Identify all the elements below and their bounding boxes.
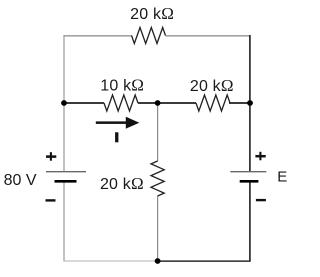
resistor R1 20 kOhm (top) [132, 28, 166, 44]
minus sign left battery [46, 199, 56, 201]
node C (right middle junction) [247, 100, 253, 106]
wire middle left lead [64, 102, 104, 104]
wire right vertical lower [249, 181, 251, 261]
svg-text:20 kΩ: 20 kΩ [100, 174, 144, 193]
battery E long plate [230, 171, 266, 173]
wire bottom right half [158, 260, 251, 262]
battery E short plate [240, 180, 259, 183]
minus sign right battery [256, 199, 266, 201]
wire top right segment [166, 35, 251, 37]
wire bottom left half [64, 260, 158, 262]
svg-text:E: E [277, 168, 287, 185]
wire middle vertical upper lead [157, 103, 159, 161]
svg-text:80 V: 80 V [4, 172, 37, 189]
resistor R4 20 kOhm (vertical middle) [151, 161, 164, 196]
node D (bottom middle junction) [155, 258, 161, 264]
wire right vertical upper [249, 35, 251, 172]
resistor R3 20 kOhm (middle right) [196, 95, 230, 111]
resistor R2 10 kOhm (middle left) [104, 95, 138, 111]
node A (left middle junction) [61, 100, 67, 106]
wire middle between resistors [138, 102, 196, 104]
current arrow I [96, 117, 140, 129]
svg-text:10 kΩ: 10 kΩ [100, 76, 144, 95]
battery V1 80 V long plate [46, 171, 86, 173]
wire top left segment [64, 35, 132, 37]
label I [115, 132, 118, 142]
plus sign right battery [255, 152, 265, 161]
battery V1 80 V short plate [55, 180, 77, 183]
wire middle vertical lower lead [157, 196, 159, 261]
wire middle right lead [229, 102, 250, 104]
svg-text:20 kΩ: 20 kΩ [130, 4, 174, 23]
node B (center middle junction) [155, 100, 161, 106]
wire left vertical lower [63, 181, 65, 261]
plus sign left battery [46, 152, 56, 161]
wire left vertical upper [63, 35, 65, 172]
svg-text:20 kΩ: 20 kΩ [190, 76, 234, 95]
